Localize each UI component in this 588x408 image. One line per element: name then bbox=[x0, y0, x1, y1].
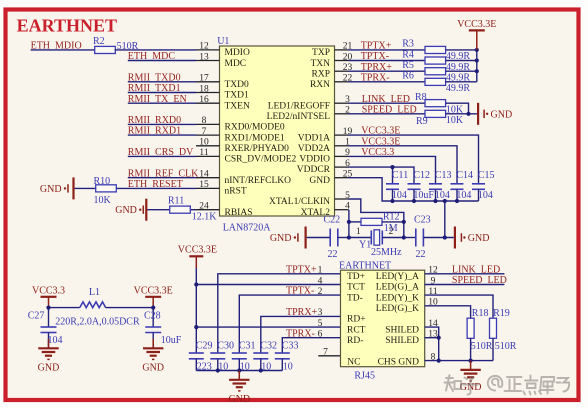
svg-text:GND: GND bbox=[115, 205, 137, 216]
connector RJ45 body bbox=[341, 270, 425, 367]
wire R4 to VCC bus bbox=[446, 60, 477, 62]
pin 9 stub bbox=[335, 155, 349, 157]
wire U1 to R5 bbox=[349, 70, 426, 72]
wire RMII_TXD1 bbox=[128, 92, 196, 94]
svg-text:12.1K: 12.1K bbox=[192, 212, 218, 223]
svg-text:1: 1 bbox=[356, 227, 361, 237]
svg-text:GND: GND bbox=[228, 394, 250, 405]
watermark zhihu @zhengdianyuanzi bbox=[445, 375, 570, 395]
pin 4 stub bbox=[335, 209, 349, 211]
svg-text:6: 6 bbox=[318, 330, 323, 340]
svg-text:RJ45: RJ45 bbox=[354, 371, 375, 382]
resistor R11 bbox=[170, 206, 191, 213]
svg-text:10: 10 bbox=[283, 361, 293, 372]
wire VDD1A (pin19) to C15 bbox=[349, 135, 479, 184]
svg-text:TPTX+: TPTX+ bbox=[286, 264, 317, 275]
svg-text:CSR_DV/MODE2: CSR_DV/MODE2 bbox=[225, 155, 297, 165]
svg-text:TXD1: TXD1 bbox=[225, 91, 250, 101]
svg-text:R19: R19 bbox=[493, 308, 510, 319]
wire GND to C22 bbox=[307, 237, 331, 239]
svg-text:R9: R9 bbox=[416, 116, 428, 127]
wire RMII_RXD0 bbox=[128, 123, 196, 125]
pin 5 stub bbox=[335, 198, 349, 200]
wire VDD2A (pin1) to C14 bbox=[349, 146, 458, 184]
junctions on cap bus bbox=[390, 199, 394, 203]
svg-text:7: 7 bbox=[202, 127, 207, 137]
wire ETH_MDIO to R2 bbox=[31, 49, 96, 51]
wire ETH_MDC bbox=[128, 60, 196, 62]
svg-text:VDD1A: VDD1A bbox=[298, 133, 330, 143]
svg-text:VDDIO: VDDIO bbox=[299, 155, 330, 165]
svg-text:GND: GND bbox=[468, 233, 490, 244]
wire CHS GND (pin8) bbox=[425, 360, 493, 362]
pin 18 stub bbox=[196, 92, 220, 94]
svg-text:104: 104 bbox=[456, 190, 471, 201]
svg-text:RXN: RXN bbox=[310, 80, 330, 90]
wire VDDCR (pin6) to C11/C12 bbox=[349, 167, 393, 184]
svg-text:15: 15 bbox=[199, 180, 209, 190]
svg-text:RBIAS: RBIAS bbox=[225, 208, 253, 218]
ground GND (C28) earth bbox=[152, 339, 154, 348]
ground GND (RJ45 shield) earth bbox=[470, 361, 472, 370]
svg-text:C14: C14 bbox=[456, 170, 473, 181]
pin 2 stub bbox=[335, 113, 349, 115]
pin 3 stub bbox=[335, 102, 349, 104]
svg-text:VCC3.3E: VCC3.3E bbox=[178, 245, 217, 256]
svg-text:VCC3.3E: VCC3.3E bbox=[134, 286, 173, 297]
svg-text:LED1/REGOFF: LED1/REGOFF bbox=[268, 101, 330, 111]
wire U1 to R6 bbox=[349, 81, 426, 83]
svg-text:VCC3.3E: VCC3.3E bbox=[457, 19, 496, 30]
resistor R6 bbox=[425, 78, 446, 85]
svg-text:LED(Y)_A: LED(Y)_A bbox=[376, 271, 419, 282]
svg-text:R18: R18 bbox=[472, 308, 489, 319]
svg-text:VDD2A: VDD2A bbox=[298, 144, 330, 154]
junction GND node bbox=[443, 235, 447, 239]
ground GND (C27) earth bbox=[48, 339, 50, 348]
svg-text:LED(G)_A: LED(G)_A bbox=[376, 282, 419, 293]
svg-text:R11: R11 bbox=[168, 195, 184, 206]
junction TCT tap bbox=[194, 282, 198, 286]
svg-text:13: 13 bbox=[199, 52, 209, 62]
wire VDDIO (pin9) to C13 bbox=[349, 156, 436, 183]
pin 22 stub bbox=[335, 81, 349, 83]
svg-text:R12: R12 bbox=[383, 211, 400, 222]
pin 16 stub bbox=[196, 102, 220, 104]
svg-text:R4: R4 bbox=[402, 49, 414, 60]
svg-text:VCC3.3: VCC3.3 bbox=[32, 286, 65, 297]
svg-text:L1: L1 bbox=[89, 287, 100, 298]
svg-text:5: 5 bbox=[318, 319, 323, 329]
wire L1 to VCC3.3E bbox=[106, 307, 154, 309]
svg-text:25MHz: 25MHz bbox=[371, 247, 402, 258]
junctions shield/GND bbox=[437, 336, 441, 340]
svg-text:TD-: TD- bbox=[347, 293, 363, 303]
resistor R5 bbox=[425, 68, 446, 75]
svg-text:LAN8720A: LAN8720A bbox=[223, 222, 272, 233]
capacitor C14 bbox=[451, 183, 464, 185]
junction dots on VCC bus bbox=[475, 48, 479, 52]
resistor R3 bbox=[425, 46, 446, 53]
wire RMII_REF_CLK bbox=[128, 177, 196, 179]
pin 14 stub bbox=[196, 177, 220, 179]
svg-text:14: 14 bbox=[199, 170, 209, 180]
pin 25 stub bbox=[335, 177, 349, 179]
resistor R2 bbox=[95, 46, 116, 53]
svg-text:R5: R5 bbox=[402, 60, 414, 71]
wire SPEED_LED bbox=[425, 284, 505, 286]
wire VCC3.3 rail to L1 bbox=[49, 307, 80, 309]
svg-text:17: 17 bbox=[199, 74, 209, 84]
svg-text:LED(G)_K: LED(G)_K bbox=[376, 303, 419, 314]
svg-text:R8: R8 bbox=[415, 92, 427, 103]
svg-text:104: 104 bbox=[392, 190, 407, 201]
svg-text:GND: GND bbox=[40, 184, 62, 195]
svg-text:RXD1/MODE1: RXD1/MODE1 bbox=[225, 133, 285, 143]
pin 8 stub bbox=[196, 123, 220, 125]
ground GND (R8/R9) bbox=[477, 103, 479, 125]
junction VCC3.3E node bbox=[151, 306, 155, 310]
wire R8 right elbow down bbox=[446, 103, 469, 114]
capacitor C13 bbox=[429, 183, 442, 185]
svg-text:nRST: nRST bbox=[225, 187, 247, 197]
svg-text:TXD0: TXD0 bbox=[225, 80, 250, 90]
stub NC (RJ45 pin7) bbox=[318, 355, 340, 357]
op-amp/IC U1 LAN8720A body bbox=[220, 46, 335, 216]
svg-text:TXEN: TXEN bbox=[225, 101, 250, 111]
svg-text:SHILED: SHILED bbox=[385, 336, 419, 346]
capacitor C33 bbox=[275, 352, 290, 354]
svg-text:R10: R10 bbox=[94, 176, 111, 187]
wire C23 to GND node bbox=[423, 237, 453, 239]
capacitor C12 bbox=[408, 183, 421, 185]
svg-text:220R,2.0A,0.05DCR: 220R,2.0A,0.05DCR bbox=[55, 316, 140, 327]
svg-text:SHILED: SHILED bbox=[385, 325, 419, 335]
wire R2 to U1 pin 12 bbox=[115, 49, 196, 51]
svg-text:TCT: TCT bbox=[347, 283, 365, 293]
resistor R8 bbox=[425, 100, 446, 107]
svg-text:CHS GND: CHS GND bbox=[378, 358, 420, 368]
pin 12 stub bbox=[196, 49, 220, 51]
pin 24 stub bbox=[196, 209, 220, 211]
capacitor C23 bbox=[404, 237, 416, 239]
pin 6 stub bbox=[335, 166, 349, 168]
wire GND to R11 bbox=[147, 209, 169, 211]
junction R8/R9 bbox=[466, 112, 470, 116]
capacitor C29 bbox=[189, 352, 204, 354]
pin 10 stub bbox=[196, 145, 220, 147]
capacitor C28 bbox=[152, 308, 154, 327]
resistor R12 bbox=[349, 221, 361, 223]
svg-text:GND: GND bbox=[309, 176, 330, 186]
svg-text:510R: 510R bbox=[471, 341, 493, 352]
ground GND (RJ45 caps) earth bbox=[238, 371, 240, 380]
wire U1 pin3 to R8 bbox=[349, 102, 426, 104]
wire GND (pin25) to cap bus bbox=[349, 178, 393, 201]
svg-text:VDDCR: VDDCR bbox=[297, 165, 331, 175]
resistor R4 bbox=[425, 57, 446, 64]
svg-text:GND: GND bbox=[38, 362, 60, 373]
svg-text:EARTHNET: EARTHNET bbox=[17, 16, 117, 36]
wire TPTX- (RJ45 pin2) to C31 bbox=[239, 295, 340, 353]
wire U1 to R3 bbox=[349, 49, 426, 51]
svg-text:R6: R6 bbox=[402, 71, 414, 82]
pin 13 stub bbox=[196, 60, 220, 62]
svg-text:RXD0/MODE0: RXD0/MODE0 bbox=[225, 123, 285, 133]
wire VCC3.3E trunk down to C29 bbox=[195, 268, 197, 353]
svg-text:24: 24 bbox=[199, 202, 209, 212]
svg-text:10uF: 10uF bbox=[161, 335, 182, 346]
resistor R9 bbox=[425, 110, 446, 117]
svg-text:510R: 510R bbox=[495, 341, 517, 352]
svg-text:TPRX-: TPRX- bbox=[286, 328, 315, 339]
svg-text:TPRX+: TPRX+ bbox=[286, 307, 318, 318]
svg-text:C12: C12 bbox=[413, 170, 430, 181]
svg-text:C30: C30 bbox=[217, 340, 234, 351]
svg-text:22: 22 bbox=[416, 249, 426, 260]
wire R5 to VCC bus bbox=[446, 70, 477, 72]
svg-text:LED(Y)_K: LED(Y)_K bbox=[376, 292, 419, 303]
svg-text:10: 10 bbox=[199, 138, 209, 148]
pin 15 stub bbox=[196, 187, 220, 189]
svg-text:EARTHNET: EARTHNET bbox=[339, 260, 391, 271]
pin 7 stub bbox=[196, 134, 220, 136]
wire LED(Y)_K (pin11) to R19 bbox=[425, 295, 493, 318]
svg-text:RCT: RCT bbox=[347, 325, 366, 335]
pin 20 stub bbox=[335, 60, 349, 62]
wire RMII_RXD1 bbox=[128, 134, 196, 136]
node B junction bbox=[402, 235, 406, 239]
junction RCT tap bbox=[194, 325, 198, 329]
ground GND (crystal right) bbox=[454, 227, 456, 249]
svg-text:nINT/REFCLKO: nINT/REFCLKO bbox=[225, 176, 292, 186]
svg-text:1: 1 bbox=[318, 266, 323, 276]
svg-text:U1: U1 bbox=[217, 36, 229, 47]
pin 21 stub bbox=[335, 49, 349, 51]
svg-text:7: 7 bbox=[323, 348, 328, 358]
svg-text:49.9R: 49.9R bbox=[446, 83, 471, 94]
capacitor C31 bbox=[232, 352, 247, 354]
inductor L1 bbox=[80, 302, 106, 308]
capacitor C30 bbox=[210, 352, 225, 354]
wire cap bus (C29-C33) bbox=[196, 370, 282, 372]
svg-text:LED2/nINTSEL: LED2/nINTSEL bbox=[267, 112, 331, 122]
svg-text:R2: R2 bbox=[93, 36, 105, 47]
svg-text:4: 4 bbox=[318, 276, 323, 286]
svg-text:10K: 10K bbox=[446, 115, 464, 126]
svg-text:C32: C32 bbox=[260, 340, 277, 351]
svg-text:10K: 10K bbox=[94, 195, 112, 206]
svg-text:Y1: Y1 bbox=[359, 239, 371, 250]
wire TPTX+ (RJ45 pin1) to C30 bbox=[218, 274, 341, 353]
svg-text:C15: C15 bbox=[478, 170, 495, 181]
wire TCT (RJ45 pin4) to VCC trunk bbox=[196, 284, 340, 286]
wire RMII_TXD0 bbox=[128, 81, 196, 83]
svg-text:NC: NC bbox=[347, 358, 360, 368]
wire TPRX+ (RJ45 pin3) to C32 bbox=[261, 316, 341, 353]
svg-text:104: 104 bbox=[435, 190, 450, 201]
svg-text:TD+: TD+ bbox=[347, 272, 365, 282]
svg-text:RD-: RD- bbox=[347, 336, 363, 346]
svg-text:C13: C13 bbox=[435, 170, 452, 181]
svg-text:RXP: RXP bbox=[312, 69, 330, 79]
svg-text:C33: C33 bbox=[282, 340, 299, 351]
svg-text:GND: GND bbox=[142, 362, 164, 373]
pin 23 stub bbox=[335, 70, 349, 72]
junctions on RJ45 cap bus bbox=[216, 368, 220, 372]
resistor R19 bbox=[490, 318, 497, 338]
svg-text:10uF: 10uF bbox=[413, 190, 434, 201]
wire VCC3.3E vertical bus bbox=[476, 50, 478, 82]
wire RMII_TX_EN bbox=[128, 102, 196, 104]
svg-text:C27: C27 bbox=[28, 310, 45, 321]
pin 19 stub bbox=[335, 134, 349, 136]
wire GND to R10 bbox=[75, 187, 96, 189]
wire RMII_CRS_DV bbox=[128, 155, 196, 157]
svg-text:16: 16 bbox=[199, 95, 209, 105]
wire C22 to node A bbox=[338, 237, 349, 239]
svg-text:R3: R3 bbox=[402, 39, 414, 50]
capacitor C15 bbox=[472, 183, 485, 185]
svg-text:22: 22 bbox=[328, 249, 338, 260]
svg-text:2: 2 bbox=[318, 287, 323, 297]
svg-text:3: 3 bbox=[318, 308, 323, 318]
svg-text:RD+: RD+ bbox=[347, 315, 366, 325]
svg-text:2: 2 bbox=[389, 227, 394, 237]
wire TPRX- (RJ45 pin6) to C33 bbox=[282, 338, 340, 353]
svg-text:104: 104 bbox=[48, 335, 63, 346]
wire cap bus to crystal GND node bbox=[444, 201, 446, 238]
wire U1 pin2 to R9 bbox=[349, 113, 426, 115]
svg-text:MDC: MDC bbox=[225, 59, 247, 69]
capacitor C22 bbox=[329, 229, 331, 247]
svg-text:C23: C23 bbox=[414, 215, 431, 226]
svg-text:C31: C31 bbox=[239, 340, 256, 351]
svg-text:12: 12 bbox=[199, 42, 209, 52]
junction VCC3.3 node bbox=[46, 306, 50, 310]
wire R9 to GND bbox=[446, 113, 477, 115]
svg-text:18: 18 bbox=[199, 84, 209, 94]
wire R3 to VCC bus bbox=[446, 49, 477, 51]
crystal Y1 25MHz bbox=[349, 237, 371, 239]
svg-text:C29: C29 bbox=[196, 340, 213, 351]
wire ETH_RESET (R10 to U1 pin 15) bbox=[117, 187, 196, 189]
svg-text:C28: C28 bbox=[144, 310, 161, 321]
svg-text:GND: GND bbox=[270, 233, 292, 244]
capacitor C11 bbox=[386, 183, 399, 185]
wire R6 to VCC bus bbox=[446, 81, 477, 83]
wire LED(G)_K (pin10) to R18 bbox=[425, 306, 471, 318]
capacitor C32 bbox=[253, 352, 268, 354]
wire cap bottom bus bbox=[393, 200, 479, 202]
svg-text:RXER/PHYAD0: RXER/PHYAD0 bbox=[225, 144, 290, 154]
wire shield pins 14/13 vertical bbox=[425, 327, 439, 361]
svg-text:C22: C22 bbox=[324, 215, 341, 226]
svg-text:11: 11 bbox=[199, 148, 208, 158]
wire U1 to R4 bbox=[349, 60, 426, 62]
resistor R10 bbox=[96, 185, 117, 192]
capacitor C27 bbox=[48, 308, 50, 327]
svg-text:MDIO: MDIO bbox=[225, 48, 250, 58]
svg-text:C11: C11 bbox=[392, 170, 408, 181]
wire R19 bottom bbox=[492, 338, 494, 360]
svg-text:TXN: TXN bbox=[310, 59, 330, 69]
wire XTAL1 (pin5) bypass to node B bbox=[349, 199, 404, 238]
svg-text:TPTX-: TPTX- bbox=[286, 286, 314, 297]
node A junction bbox=[347, 235, 351, 239]
pin 1 stub bbox=[335, 145, 349, 147]
pin 11 stub bbox=[196, 155, 220, 157]
svg-text:TXP: TXP bbox=[312, 48, 330, 58]
wire R11 to U1 pin 24 bbox=[191, 209, 196, 211]
svg-text:104: 104 bbox=[478, 190, 493, 201]
resistor R18 bbox=[467, 318, 474, 338]
wire LINK_LED bbox=[425, 273, 505, 275]
svg-text:GND: GND bbox=[491, 109, 513, 120]
wire RCT (RJ45 pin5) to VCC trunk bbox=[196, 326, 340, 328]
wire XTAL2 (pin4) down to node A bbox=[348, 210, 350, 238]
svg-text:XTAL1/CLKIN: XTAL1/CLKIN bbox=[269, 197, 330, 207]
pin 17 stub bbox=[196, 81, 220, 83]
svg-text:8: 8 bbox=[202, 116, 207, 126]
wire R18 bottom bbox=[470, 338, 472, 360]
